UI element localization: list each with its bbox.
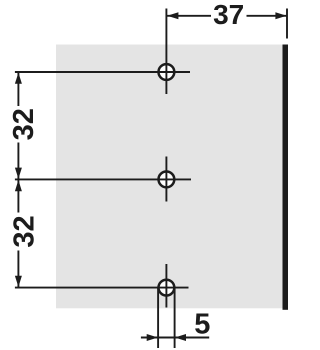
svg-text:32: 32 xyxy=(8,108,40,140)
wire: centerline vertical hole 3 xyxy=(165,264,167,308)
arrow pointing right at left tangent xyxy=(147,334,158,341)
mounting plate (gray body) xyxy=(56,45,283,309)
arrow down at hole3 level xyxy=(15,276,22,287)
dimension 37 line xyxy=(166,15,287,17)
arrow up at hole2 level (lower dim) xyxy=(15,180,22,191)
wire: extension line right tangent of hole 3 xyxy=(174,288,176,348)
wire: centerline horizontal through hole 2 xyxy=(15,178,191,180)
dimension 5 line xyxy=(141,337,209,339)
arrow left of dim 37 xyxy=(167,12,178,19)
arrow down at hole2 level (upper dim) xyxy=(15,168,22,179)
wire: extension line left tangent of hole 3 xyxy=(157,288,159,348)
svg-text:37: 37 xyxy=(213,0,244,30)
dimension 32 lower line xyxy=(17,179,19,287)
wire: centerline vertical hole 1 / extension for 37 xyxy=(165,9,167,95)
hole C2 (middle) xyxy=(159,172,175,188)
arrow up at hole1 level xyxy=(15,73,22,84)
wire: centerline vertical hole 2 xyxy=(165,157,167,202)
wire: right extension line for 37 xyxy=(286,9,288,39)
wire: centerline horizontal through hole 1 xyxy=(15,71,190,73)
svg-text:5: 5 xyxy=(194,308,210,340)
arrow right of dim 37 xyxy=(275,12,286,19)
wire: centerline horizontal through hole 3 xyxy=(15,287,189,289)
dimension 32 upper line xyxy=(17,72,19,179)
plate edge (thick black bar) xyxy=(283,45,289,310)
hole C3 (bottom) xyxy=(159,280,175,296)
hole C1 (top) xyxy=(159,64,175,80)
svg-text:32: 32 xyxy=(8,215,40,247)
arrow pointing left at right tangent xyxy=(175,334,186,341)
